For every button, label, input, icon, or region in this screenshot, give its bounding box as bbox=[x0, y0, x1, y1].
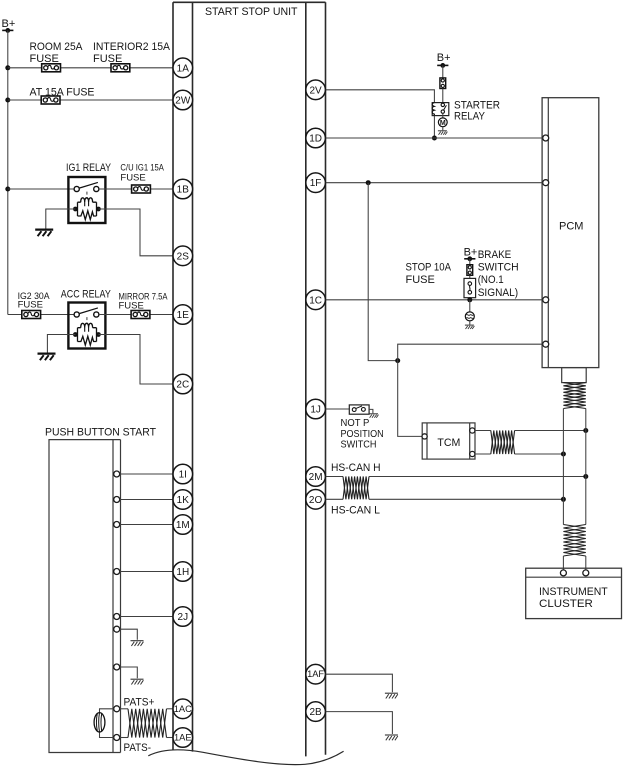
svg-text:1I: 1I bbox=[179, 470, 187, 481]
fuse AT 15A bbox=[41, 96, 60, 104]
ground push button 2 bbox=[131, 679, 144, 684]
PCM pin brake line bbox=[543, 297, 549, 303]
ground ACC relay bbox=[38, 354, 56, 361]
wire PCM to TCM bbox=[398, 344, 543, 436]
svg-text:SIGNAL): SIGNAL) bbox=[478, 287, 518, 299]
pin 1C bbox=[306, 290, 326, 310]
wire HS-CAN L to trunk bbox=[369, 498, 563, 500]
twisted pair HS-CAN bbox=[343, 477, 369, 500]
svg-text:2S: 2S bbox=[177, 251, 190, 262]
strip pin 1H bbox=[114, 569, 120, 575]
svg-text:2J: 2J bbox=[178, 612, 189, 623]
pin 1K bbox=[173, 490, 193, 510]
svg-text:HS-CAN H: HS-CAN H bbox=[331, 462, 381, 474]
wire immobilizer loop bbox=[100, 709, 114, 738]
svg-text:2B: 2B bbox=[309, 707, 322, 718]
pin 2O bbox=[306, 490, 326, 510]
svg-text:RELAY: RELAY bbox=[454, 111, 486, 123]
pin 1AE bbox=[173, 728, 193, 748]
node CAN L join bbox=[561, 497, 566, 502]
strip pin 1M bbox=[114, 522, 120, 528]
ground push button 1 bbox=[131, 641, 144, 646]
pin 1F bbox=[306, 173, 326, 193]
fuse C/U IG1 15A bbox=[132, 185, 151, 193]
node brake / 1C bbox=[467, 297, 472, 302]
wire B+ rail corner to ACC relay bbox=[8, 314, 74, 316]
starter relay box bbox=[432, 103, 449, 116]
wire 1I bbox=[120, 473, 174, 475]
TCM connector strips bbox=[427, 423, 470, 459]
svg-text:TCM: TCM bbox=[437, 437, 460, 449]
svg-text:1D: 1D bbox=[309, 134, 322, 145]
svg-text:INTERIOR2 15A: INTERIOR2 15A bbox=[93, 41, 171, 53]
pin 1E bbox=[173, 305, 193, 325]
svg-text:IG1 RELAY: IG1 RELAY bbox=[66, 162, 112, 174]
PCM pin 1D line bbox=[543, 135, 549, 141]
svg-text:2M: 2M bbox=[309, 472, 323, 483]
svg-text:M: M bbox=[440, 120, 446, 127]
wire twist to 1AE bbox=[167, 737, 174, 739]
svg-text:FUSE: FUSE bbox=[406, 274, 435, 286]
pin 2M bbox=[306, 467, 326, 487]
wire B+ to fuse bbox=[442, 65, 444, 78]
svg-text:SWITCH: SWITCH bbox=[478, 262, 519, 274]
pin 1AF bbox=[306, 664, 326, 684]
wire CAN L trunk bbox=[562, 409, 564, 525]
wire 1K bbox=[120, 499, 174, 501]
wire fuse to brake switch bbox=[469, 275, 471, 278]
wire 2M stub bbox=[326, 476, 343, 478]
twisted pair TCM bbox=[491, 431, 515, 455]
svg-text:2V: 2V bbox=[309, 85, 322, 96]
node 1F branch bbox=[366, 180, 371, 185]
svg-text:AT 15A FUSE: AT 15A FUSE bbox=[30, 86, 95, 98]
svg-text:1B: 1B bbox=[177, 185, 190, 196]
strip pin 2J bbox=[114, 614, 120, 620]
wire starter coil to 1D line bbox=[433, 116, 435, 138]
svg-text:1AC: 1AC bbox=[174, 704, 192, 714]
fuse IG2 30A bbox=[22, 311, 41, 319]
ground 2B bbox=[385, 735, 398, 740]
node 1A branch bbox=[5, 65, 10, 70]
wire switch to motor bbox=[442, 113, 444, 118]
push button start box bbox=[49, 440, 121, 753]
svg-text:1AE: 1AE bbox=[174, 733, 192, 743]
node 2W branch bbox=[5, 98, 10, 103]
ground park switch bbox=[369, 414, 379, 418]
svg-text:START STOP UNIT: START STOP UNIT bbox=[205, 6, 298, 18]
pin 1AC bbox=[173, 699, 193, 719]
TCM pin left bbox=[422, 434, 427, 439]
svg-text:2C: 2C bbox=[176, 380, 189, 391]
wire 1J to park switch bbox=[326, 408, 350, 410]
node TCM H / CAN H bbox=[583, 428, 588, 433]
svg-text:HS-CAN L: HS-CAN L bbox=[331, 504, 380, 516]
TCM box bbox=[422, 423, 475, 459]
wire twist to 1AC bbox=[167, 708, 174, 710]
pin 2C bbox=[173, 374, 193, 394]
wire CAN H trunk bbox=[585, 409, 587, 525]
B+ supply brake bbox=[464, 256, 475, 261]
wire twist to cluster pins bbox=[563, 556, 585, 570]
wire TCM L to CAN L bbox=[515, 453, 564, 455]
cluster pin CAN L bbox=[560, 570, 566, 576]
svg-text:PUSH BUTTON START: PUSH BUTTON START bbox=[45, 426, 156, 438]
svg-text:B+: B+ bbox=[437, 52, 451, 64]
wire TCM L to twist bbox=[475, 453, 491, 455]
fuse INTERIOR2 15A bbox=[111, 64, 130, 72]
relay ACC bbox=[68, 303, 105, 349]
svg-text:ROOM 25A: ROOM 25A bbox=[30, 41, 84, 53]
pin 2V bbox=[306, 80, 326, 100]
pin 1D bbox=[306, 128, 326, 148]
pin 1B bbox=[173, 179, 193, 199]
starter motor bbox=[438, 118, 447, 127]
wire 2B to ground bbox=[326, 712, 393, 734]
wire fuse to switch bbox=[442, 89, 444, 104]
wire B+ to IG1 relay bbox=[8, 188, 74, 190]
svg-text:1E: 1E bbox=[177, 310, 190, 321]
ground IG1 relay bbox=[35, 230, 53, 237]
svg-text:1K: 1K bbox=[177, 495, 190, 506]
svg-text:1J: 1J bbox=[310, 405, 321, 416]
start stop unit right bar bbox=[306, 2, 326, 756]
ground 1AF bbox=[385, 693, 398, 698]
strip pin PATS+ bbox=[114, 706, 120, 712]
starter relay coil bbox=[432, 103, 434, 116]
immobilizer coil bbox=[94, 713, 105, 732]
park switch contacts bbox=[352, 408, 356, 412]
B+ supply bbox=[2, 28, 13, 33]
wire to 1A bbox=[8, 67, 173, 69]
wire 1F branch down bbox=[368, 183, 398, 361]
strip pin gnd1 bbox=[114, 626, 120, 632]
ground stop lamp bbox=[465, 325, 475, 329]
pin 2J bbox=[173, 607, 193, 627]
wire B+ rail vertical bbox=[7, 30, 9, 314]
node 1B branch bbox=[5, 187, 10, 192]
strip pin 1K bbox=[114, 497, 120, 503]
stop lamp bulb bbox=[465, 312, 474, 321]
PCM pin TCM line bbox=[543, 341, 549, 347]
wire IG1 to fuse to 1B bbox=[99, 188, 173, 190]
pin 1J bbox=[306, 399, 326, 419]
svg-text:STOP 10A: STOP 10A bbox=[406, 261, 452, 273]
fuse STOP 10A bbox=[467, 265, 473, 276]
wire IG1 coil to 2S bbox=[98, 209, 173, 256]
wire ground 2 bbox=[120, 667, 138, 678]
relay IG1 bbox=[68, 177, 105, 223]
pin 2S bbox=[173, 246, 193, 266]
svg-text:1A: 1A bbox=[177, 63, 190, 74]
start stop unit left bar bbox=[173, 2, 193, 751]
wire TCM H to CAN H bbox=[515, 430, 586, 432]
fuse MIRROR 7.5A bbox=[131, 311, 150, 319]
wire 2J bbox=[120, 616, 174, 618]
PCM connector strip bbox=[547, 98, 549, 368]
svg-text:1H: 1H bbox=[176, 567, 189, 578]
svg-text:SWITCH: SWITCH bbox=[341, 440, 377, 451]
TCM pin CAN H bbox=[470, 428, 475, 433]
wire brake switch to 1C line bbox=[469, 298, 471, 300]
brake switch contacts bbox=[468, 282, 472, 286]
fuse ROOM 25A bbox=[42, 64, 61, 72]
svg-text:2O: 2O bbox=[309, 495, 323, 506]
wire break wave bbox=[148, 750, 343, 765]
node CAN H join bbox=[583, 474, 588, 479]
wire IG1 coil to ground bbox=[46, 209, 76, 229]
instrument cluster box bbox=[526, 568, 622, 618]
svg-text:BRAKE: BRAKE bbox=[478, 249, 512, 261]
wire to 2W bbox=[8, 99, 173, 101]
start stop unit top edge bbox=[173, 1, 326, 3]
wire 1C to PCM bbox=[326, 299, 543, 301]
wire PATS+ stub bbox=[120, 708, 128, 710]
wire 1AF to ground bbox=[326, 674, 393, 692]
wire 1M bbox=[120, 524, 174, 526]
pin 1M bbox=[173, 515, 193, 535]
svg-text:FUSE: FUSE bbox=[120, 172, 145, 183]
pin 2W bbox=[173, 90, 193, 110]
instrument cluster top strip bbox=[526, 576, 622, 578]
node starter coil / 1D bbox=[432, 136, 437, 141]
wire park switch to ground bbox=[369, 409, 373, 413]
svg-text:1F: 1F bbox=[310, 178, 322, 189]
svg-text:2W: 2W bbox=[175, 96, 191, 107]
svg-text:(NO.1: (NO.1 bbox=[478, 274, 504, 286]
wire 2V to starter relay coil bbox=[326, 90, 435, 103]
wire ACC coil to 2C bbox=[98, 335, 173, 385]
wire ground 1 bbox=[120, 629, 138, 640]
wire PATS- stub bbox=[120, 737, 128, 739]
cluster pin CAN H bbox=[583, 570, 589, 576]
twisted pair cluster bbox=[563, 525, 585, 557]
svg-text:FUSE: FUSE bbox=[93, 53, 122, 65]
svg-text:POSITION: POSITION bbox=[341, 429, 384, 440]
pin 2B bbox=[306, 702, 326, 722]
pin 1I bbox=[173, 464, 193, 484]
wire ACC to fuse to 1E bbox=[99, 314, 173, 316]
wire 1D to PCM bbox=[326, 137, 543, 139]
svg-text:NOT P: NOT P bbox=[341, 418, 370, 429]
brake switch box bbox=[464, 278, 476, 297]
svg-text:1C: 1C bbox=[309, 295, 322, 306]
starter relay contacts bbox=[441, 103, 444, 106]
PCM harness stub bbox=[562, 368, 587, 383]
wire 1C line to stop lamp bbox=[469, 300, 471, 312]
wire HS-CAN H to trunk bbox=[369, 476, 586, 478]
strip pin gnd2 bbox=[114, 664, 120, 670]
wire ACC coil to ground bbox=[47, 335, 75, 353]
svg-text:PATS+: PATS+ bbox=[124, 696, 155, 708]
wire 2O stub bbox=[326, 498, 343, 500]
twisted pair PATS bbox=[128, 709, 167, 738]
svg-text:CLUSTER: CLUSTER bbox=[539, 598, 593, 610]
svg-text:ACC RELAY: ACC RELAY bbox=[61, 289, 112, 301]
wire TCM H to twist bbox=[475, 430, 491, 432]
pin 1H bbox=[173, 562, 193, 582]
svg-text:1AF: 1AF bbox=[307, 669, 324, 679]
svg-text:INSTRUMENT: INSTRUMENT bbox=[539, 586, 608, 598]
wire bulb to ground bbox=[469, 321, 471, 325]
ground starter motor bbox=[438, 131, 448, 135]
wire 1H bbox=[120, 571, 174, 573]
wire 1F to PCM bbox=[326, 182, 543, 184]
PCM box bbox=[542, 98, 599, 368]
not P position switch box bbox=[349, 405, 369, 414]
twisted pair PCM down bbox=[563, 383, 585, 409]
node TCM L / CAN L bbox=[561, 452, 566, 457]
svg-text:FUSE: FUSE bbox=[30, 53, 59, 65]
node TCM line join bbox=[395, 358, 400, 363]
wire motor to ground bbox=[442, 127, 444, 131]
svg-text:FUSE: FUSE bbox=[18, 299, 43, 310]
strip pin PATS- bbox=[114, 735, 120, 741]
svg-text:1M: 1M bbox=[176, 520, 190, 531]
svg-text:PATS-: PATS- bbox=[124, 742, 152, 754]
PCM pin 1F line bbox=[543, 180, 549, 186]
wire B+ to stop fuse bbox=[469, 259, 471, 264]
push button connector strip bbox=[113, 440, 121, 753]
B+ supply starter bbox=[437, 63, 448, 68]
fuse starter bbox=[440, 78, 446, 89]
strip pin 1I bbox=[114, 471, 120, 477]
TCM pin CAN L bbox=[470, 451, 475, 456]
pin 1A bbox=[173, 58, 193, 78]
svg-text:PCM: PCM bbox=[559, 221, 583, 233]
